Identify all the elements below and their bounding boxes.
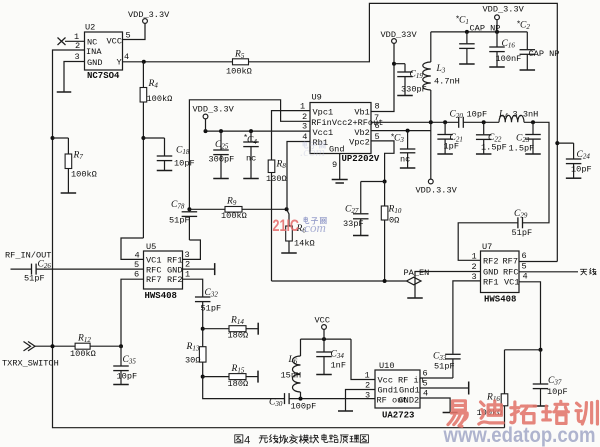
svg-text:Vb1: Vb1 xyxy=(354,107,369,117)
svg-text:3: 3 xyxy=(365,391,370,401)
svg-text:www.edatop.com: www.edatop.com xyxy=(443,423,596,447)
svg-text:VDD_3.3V: VDD_3.3V xyxy=(193,105,235,115)
svg-text:0Ω: 0Ω xyxy=(389,216,399,226)
svg-text:130Ω: 130Ω xyxy=(266,174,287,184)
svg-text:100kΩ: 100kΩ xyxy=(70,349,96,359)
svg-text:10pF: 10pF xyxy=(467,110,488,120)
svg-text:U9: U9 xyxy=(312,93,322,103)
svg-text:100kΩ: 100kΩ xyxy=(221,211,247,221)
svg-text:GND: GND xyxy=(483,268,498,278)
svg-text:51pF: 51pF xyxy=(169,216,190,226)
svg-text:TXRX_SWITCH: TXRX_SWITCH xyxy=(2,359,59,369)
svg-text:3.3nH: 3.3nH xyxy=(513,110,539,120)
svg-text:180Ω: 180Ω xyxy=(228,379,249,389)
svg-text:3: 3 xyxy=(302,122,307,132)
svg-text:3: 3 xyxy=(75,52,80,62)
svg-text:RF2: RF2 xyxy=(167,275,182,285)
svg-text:30Ω: 30Ω xyxy=(185,356,200,366)
svg-text:1: 1 xyxy=(472,252,477,262)
svg-text:Vpc2: Vpc2 xyxy=(349,138,370,148)
svg-text:4: 4 xyxy=(523,272,528,282)
svg-text:6: 6 xyxy=(423,369,428,379)
svg-text:U2: U2 xyxy=(85,23,95,33)
svg-text:NC: NC xyxy=(87,38,97,48)
svg-text:INA: INA xyxy=(86,47,102,57)
svg-text:5: 5 xyxy=(522,262,527,272)
svg-text:51pF: 51pF xyxy=(201,304,222,314)
svg-text:1: 1 xyxy=(185,269,190,279)
svg-text:8: 8 xyxy=(375,102,380,112)
svg-text:RF in: RF in xyxy=(398,376,424,386)
svg-text:GND: GND xyxy=(167,265,182,275)
svg-text:PA_EN: PA_EN xyxy=(404,268,430,278)
svg-text:HWS408: HWS408 xyxy=(145,291,177,301)
svg-text:51pF: 51pF xyxy=(24,274,45,284)
svg-text:RF7: RF7 xyxy=(146,275,161,285)
svg-text:100kΩ: 100kΩ xyxy=(226,67,252,77)
svg-text:VC1: VC1 xyxy=(146,256,161,266)
svg-text:2: 2 xyxy=(472,262,477,272)
svg-text:9: 9 xyxy=(332,160,337,170)
svg-text:U5: U5 xyxy=(146,242,156,252)
svg-text:RF_IN/OUT: RF_IN/OUT xyxy=(5,251,51,261)
svg-text:4.7nH: 4.7nH xyxy=(434,77,460,87)
svg-text:1.5pF: 1.5pF xyxy=(481,143,507,153)
svg-text:10pF: 10pF xyxy=(117,372,138,382)
svg-text:VDD_3.3V: VDD_3.3V xyxy=(483,5,525,15)
svg-text:21IC: 21IC xyxy=(273,216,300,235)
svg-text:nc: nc xyxy=(400,155,410,165)
svg-text:CAP NP: CAP NP xyxy=(470,24,501,34)
svg-text:GND: GND xyxy=(87,58,102,68)
svg-text:1: 1 xyxy=(365,371,370,381)
svg-text:U7: U7 xyxy=(482,242,492,252)
svg-text:1.5pF: 1.5pF xyxy=(509,144,535,154)
svg-text:5: 5 xyxy=(423,379,428,389)
svg-text:4: 4 xyxy=(244,435,250,447)
svg-text:VCC: VCC xyxy=(315,316,330,326)
svg-text:RFinVcc2+RFout: RFinVcc2+RFout xyxy=(311,118,383,128)
svg-text:1nF: 1nF xyxy=(331,361,346,371)
svg-text:VDD_33V: VDD_33V xyxy=(381,30,418,40)
svg-text:14kΩ: 14kΩ xyxy=(294,239,315,249)
svg-text:RF7: RF7 xyxy=(503,257,518,267)
svg-text:HWS408: HWS408 xyxy=(484,295,516,305)
svg-text:.com: .com xyxy=(300,144,325,159)
svg-text:51pF: 51pF xyxy=(512,228,533,238)
svg-text:.com: .com xyxy=(301,220,326,235)
svg-text:Vcc: Vcc xyxy=(378,376,393,386)
svg-text:VDD_3.3V: VDD_3.3V xyxy=(128,10,170,20)
svg-text:3: 3 xyxy=(185,250,190,260)
svg-text:NC7SO4: NC7SO4 xyxy=(87,71,120,81)
svg-text:Gnd1: Gnd1 xyxy=(399,386,420,396)
svg-text:RFC: RFC xyxy=(146,265,161,275)
svg-text:RF1: RF1 xyxy=(167,256,182,266)
svg-text:4: 4 xyxy=(124,52,129,62)
svg-text:VCC: VCC xyxy=(107,37,122,47)
svg-text:GND2: GND2 xyxy=(399,396,420,406)
svg-text:4: 4 xyxy=(135,250,140,260)
svg-text:4: 4 xyxy=(302,132,307,142)
svg-text:1pF: 1pF xyxy=(444,142,459,152)
svg-text:15nH: 15nH xyxy=(281,371,302,381)
svg-text:10pF: 10pF xyxy=(174,159,195,169)
svg-text:nc: nc xyxy=(246,154,256,164)
svg-text:RF2: RF2 xyxy=(483,257,498,267)
svg-text:RFC: RFC xyxy=(503,268,518,278)
svg-text:10pF: 10pF xyxy=(547,387,568,397)
svg-text:10pF: 10pF xyxy=(571,165,592,175)
svg-text:51pF: 51pF xyxy=(434,362,455,372)
svg-text:U10: U10 xyxy=(379,361,394,371)
svg-text:Vpc1: Vpc1 xyxy=(313,107,334,117)
svg-text:Gnd1: Gnd1 xyxy=(378,386,399,396)
svg-text:Gnd: Gnd xyxy=(329,145,344,155)
svg-text:RF1: RF1 xyxy=(483,277,498,287)
svg-text:180Ω: 180Ω xyxy=(228,331,249,341)
svg-text:2: 2 xyxy=(185,259,190,269)
svg-text:100kΩ: 100kΩ xyxy=(147,94,173,104)
svg-text:100nF: 100nF xyxy=(496,54,522,64)
svg-text:6: 6 xyxy=(522,251,527,261)
svg-text:Vb2: Vb2 xyxy=(354,128,369,138)
svg-text:100kΩ: 100kΩ xyxy=(71,170,97,180)
svg-text:33pF: 33pF xyxy=(343,219,364,229)
svg-text:6: 6 xyxy=(134,270,139,280)
svg-text:UA2723: UA2723 xyxy=(382,411,414,421)
svg-text:1: 1 xyxy=(300,101,305,111)
svg-text:2: 2 xyxy=(302,112,307,122)
svg-text:Y: Y xyxy=(117,58,122,68)
svg-text:300pF: 300pF xyxy=(209,155,235,165)
svg-text:100pF: 100pF xyxy=(291,402,317,412)
svg-text:4: 4 xyxy=(423,389,428,399)
svg-text:Vcc1: Vcc1 xyxy=(313,128,334,138)
svg-text:CAP NP: CAP NP xyxy=(529,49,560,59)
svg-text:VC1: VC1 xyxy=(504,278,519,288)
svg-text:UP2202V: UP2202V xyxy=(342,154,380,164)
svg-text:VDD.3.3V: VDD.3.3V xyxy=(416,186,458,196)
